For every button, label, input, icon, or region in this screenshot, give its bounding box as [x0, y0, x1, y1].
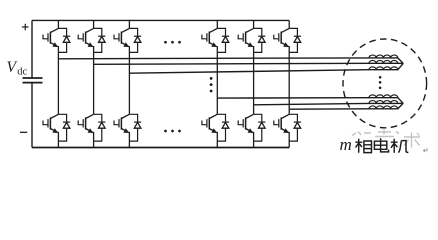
label: Vdc source voltage	[7, 59, 28, 77]
diode Qn-2BD (freewheeling)	[254, 114, 266, 141]
diode Q3TD (freewheeling)	[129, 28, 141, 52]
wire: phase line 1 (leg 1 midpoint to motor winding)	[58, 58, 403, 64]
diode QnBD (freewheeling)	[289, 114, 301, 141]
wire: leg 1 bottom stub to - rail	[57, 141, 59, 147]
wire: left DC bus vertical (source to rails)	[31, 20, 33, 147]
diode Q1TD (freewheeling)	[58, 28, 70, 52]
wire: phase line 4 (leg 4 midpoint to motor winding)	[217, 98, 403, 104]
transistor QnB (IGBT)	[274, 114, 289, 141]
wire: leg 5 bottom stub to - rail	[253, 141, 255, 147]
wire: leg 3 midpoint vertical	[128, 52, 130, 114]
wire: leg 6 bottom stub to - rail	[288, 141, 290, 147]
wire: leg 3 bottom stub to - rail	[128, 141, 130, 147]
label: 电 (electric) hand-drawn glyph	[374, 138, 388, 152]
svg-text:m: m	[340, 135, 352, 154]
wire: leg 5 midpoint vertical	[253, 52, 255, 114]
diode Q3BD (freewheeling)	[129, 114, 141, 141]
node: DC negative rail (-)	[32, 147, 289, 149]
watermark: return mark	[423, 148, 427, 152]
svg-text:V: V	[7, 59, 18, 76]
motor boundary: dashed circle	[343, 39, 427, 128]
watermark (decorative gray marks)	[352, 130, 420, 148]
inductor: motor winding 2	[369, 60, 398, 63]
label: 相 (phase) hand-drawn glyph	[355, 139, 371, 153]
wire: leg 4 top stub from + rail	[216, 20, 218, 28]
wire: leg 3 top stub from + rail	[128, 20, 130, 28]
diode Qn-2TD (freewheeling)	[254, 28, 266, 52]
transistor Q2T (IGBT)	[78, 28, 93, 52]
wire: leg 1 top stub from + rail	[57, 20, 59, 28]
inductor: motor winding 4	[369, 95, 398, 98]
wire: leg 2 bottom stub to - rail	[93, 141, 95, 147]
svg-text:dc: dc	[17, 67, 27, 78]
label: + terminal	[22, 24, 29, 31]
wire: phase line 5 (leg 5 midpoint to motor winding)	[254, 103, 404, 105]
inductor: motor winding 3	[369, 67, 398, 70]
wire: phase line 6 (leg 6 midpoint to motor winding)	[289, 103, 403, 109]
diode QnTD (freewheeling)	[289, 28, 301, 52]
inductor: motor winding 5	[369, 101, 398, 104]
diode Q2TD (freewheeling)	[94, 28, 106, 52]
transistor Qn-1B (IGBT)	[202, 114, 217, 141]
wire: leg 4 bottom stub to - rail	[216, 141, 218, 147]
diode Qn-1BD (freewheeling)	[217, 114, 229, 141]
wire: leg 4 midpoint vertical	[216, 52, 218, 114]
transistor Q3B (IGBT)	[114, 114, 129, 141]
transistor Q2B (IGBT)	[78, 114, 93, 141]
diode Q2BD (freewheeling)	[94, 114, 106, 141]
dots: more legs (top row ...)	[164, 41, 181, 44]
label: 机 (machine) hand-drawn glyph	[391, 139, 409, 153]
inductor: motor winding 6	[369, 106, 398, 109]
wire: leg 5 top stub from + rail	[253, 20, 255, 28]
transistor Q1T (IGBT)	[43, 28, 58, 52]
node: DC positive rail (+)	[32, 19, 289, 21]
wire: phase line 3 (leg 3 midpoint to motor winding)	[129, 63, 403, 73]
inductor: motor winding 1	[369, 55, 398, 58]
transistor Qn-2B (IGBT)	[238, 114, 253, 141]
dots: more phase lines (vertical ellipsis)	[210, 77, 213, 92]
wire: leg 2 top stub from + rail	[93, 20, 95, 28]
wire: leg 2 midpoint vertical	[93, 52, 95, 114]
transistor Qn-2T (IGBT)	[238, 28, 253, 52]
dots: more windings (vertical ellipsis inside motor)	[379, 76, 382, 89]
diode Qn-1TD (freewheeling)	[217, 28, 229, 52]
wire: phase line 2 (leg 2 midpoint to motor winding)	[94, 63, 404, 64]
wire: leg 6 top stub from + rail	[288, 20, 290, 28]
label: - terminal	[20, 131, 27, 133]
transistor Q3T (IGBT)	[114, 28, 129, 52]
wire: leg 1 midpoint vertical	[57, 52, 59, 114]
capacitor C (DC-link)	[23, 78, 43, 83]
dots: more legs (bottom row ...)	[164, 130, 181, 133]
wire: leg 6 midpoint vertical	[288, 52, 290, 114]
transistor Q1B (IGBT)	[43, 114, 58, 141]
diode Q1BD (freewheeling)	[58, 114, 70, 141]
transistor Qn-1T (IGBT)	[202, 28, 217, 52]
transistor QnT (IGBT)	[274, 28, 289, 52]
